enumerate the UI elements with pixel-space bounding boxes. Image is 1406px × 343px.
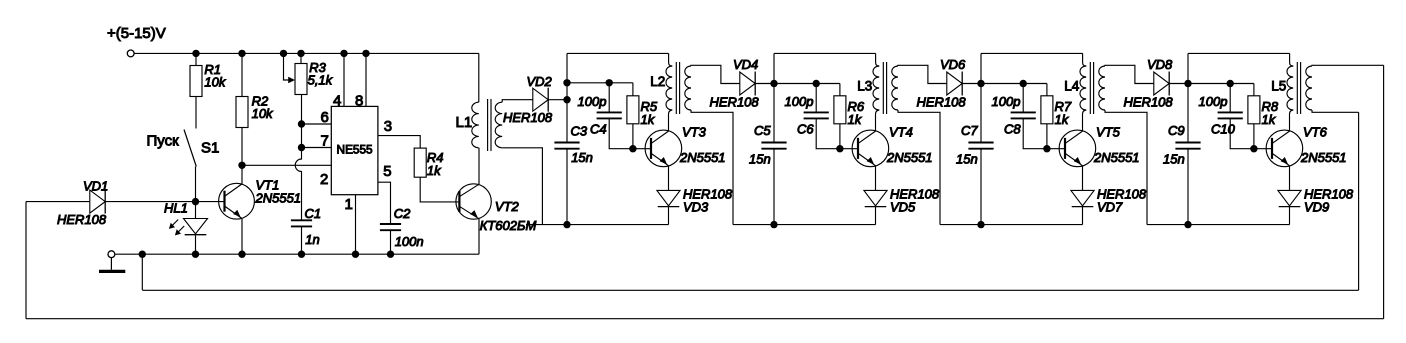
wire: VT1 emitter lead [241,219,243,255]
svg-text:VT5: VT5 [1096,125,1121,140]
wire: stage bottom rail [1147,224,1290,226]
svg-text:C1: C1 [305,206,322,221]
capacitor C2 [380,223,401,225]
transformer L5 core [1296,62,1298,114]
wire: C4 branch down [608,83,610,112]
wire: R1 top lead [195,53,197,65]
wire: pin7 down with hop over pin2 wire [295,148,301,221]
wire: VT1 collector lead [241,165,243,184]
svg-text:VD7: VD7 [1097,200,1123,215]
wire: C6 to base node [816,118,840,148]
wire: VT3 base wire [633,148,651,150]
svg-text:VT4: VT4 [889,125,913,140]
transformer L1 secondary winding [495,102,502,148]
svg-text:5,1k: 5,1k [308,73,334,88]
resistor R5 [627,96,639,124]
resistor R7 [1041,96,1053,124]
resistor R1 [190,66,202,97]
transformer L4 primary winding [1080,66,1086,110]
wire: stage left vertical lower [1187,149,1189,225]
node: R2/VT1 collector/555 pin2 [238,162,245,169]
svg-text:C3: C3 [571,124,588,139]
svg-text:КТ602БМ: КТ602БМ [480,218,537,233]
power input terminal [127,50,134,57]
wire: VD1 cathode to node [105,201,195,203]
svg-text:1: 1 [345,196,353,213]
wire: 555 pin 2 [242,164,331,166]
wire: secondary bottom lead to next stage rail [1105,110,1147,225]
ground bar [99,270,125,273]
diode VD6 [947,72,962,95]
wire: secondary top lead to next stage [898,65,947,83]
diode VD5 [864,190,887,205]
svg-text:4: 4 [333,93,341,110]
wire: HL1 anode lead [195,202,197,219]
svg-text:S1: S1 [201,140,219,157]
wire: +V top rail [134,52,479,54]
svg-text:HER108: HER108 [503,110,553,125]
transformer L5 primary winding [1287,66,1293,110]
svg-text:HER108: HER108 [917,95,967,110]
potentiometer R3 [295,64,307,95]
capacitor C7 [968,142,993,144]
transformer L4 core [1089,62,1091,114]
diode VD8 [1154,72,1169,95]
node: C6 tap [813,80,820,87]
wire: R1 to switch [195,97,197,129]
wire: pin6 to pin7 [301,124,303,148]
svg-text:VT3: VT3 [682,125,707,140]
svg-text:15n: 15n [749,152,771,167]
svg-text:2N5551: 2N5551 [886,150,933,165]
wire: switch to base node [195,167,197,202]
wire: stage top rail [774,52,876,54]
svg-text:2N5551: 2N5551 [1093,150,1140,165]
svg-text:100n: 100n [395,234,424,249]
wire: right inner vertical [1358,112,1360,290]
wire: C10 branch down [1229,84,1231,112]
wire: stage left vertical upper [1187,53,1189,142]
wire: secondary bottom lead to next stage rail [898,110,940,225]
wire: VD3 to stage rail [668,207,670,225]
node: VT6 base node [1250,145,1257,152]
wire: C6 branch down [815,84,817,112]
wire: L1 secondary top lead [502,100,533,103]
node: VT1 emitter on rail [238,251,245,258]
resistor R6 [834,96,846,124]
wire: primary top lead [876,53,880,66]
node: C8 tap [1020,80,1027,87]
wire: 555 pin 5 [378,182,391,224]
svg-text:VT2: VT2 [495,199,520,214]
node: VD6 output [977,80,984,87]
node: 555 pin8 rail [362,50,369,57]
resistor R4 [414,148,426,177]
wire: R6 top lead [839,84,841,96]
wire: VT4 emitter lead [875,166,877,191]
wire: stage left vertical lower [980,149,982,225]
svg-text:1k: 1k [1262,112,1277,127]
node: S1/VD1/HL1/VT1 base [192,198,199,205]
capacitor C10 [1218,111,1243,113]
wire: bottom outer return wire [26,318,1384,320]
wire: VT3 emitter lead [668,166,670,191]
svg-text:Пуск: Пуск [147,133,180,150]
transformer L3 core [882,62,884,114]
svg-text:VD5: VD5 [890,200,916,215]
node: stage1 82.8 rail tap [563,79,570,86]
wire: VT3 collector lead [669,110,673,131]
svg-text:L3: L3 [857,79,872,94]
wire: VT4 collector lead [876,110,880,131]
node: VD8 output [1184,80,1191,87]
node: VT4 base node [836,145,843,152]
svg-text:1k: 1k [848,112,863,127]
LED HL1 arrows [170,220,178,228]
svg-text:NE555: NE555 [337,143,374,157]
svg-text:100p: 100p [578,94,607,109]
node: C2 on ground rail [387,251,394,258]
wire: 555 pin 7 [302,147,332,149]
wire: L5 secondary bottom lead [1312,110,1359,112]
wire: VD6 cathode to node [962,83,981,85]
svg-text:C10: C10 [1211,122,1236,137]
svg-text:15n: 15n [571,150,593,165]
wire: stage1 left vertical upper [566,53,568,142]
wire: R6 bottom lead [839,124,841,149]
wire: VT1 base wire [196,201,225,203]
svg-text:L5: L5 [1271,79,1286,94]
capacitor C4 [597,111,622,113]
wire: rail down to L1 primary [478,53,480,102]
node: C4 tap [606,79,613,86]
transistor VT4 [852,130,889,167]
node: C7 on stage rail [977,221,984,228]
svg-text:HER108: HER108 [1124,95,1174,110]
wire: C4 to base node [609,118,633,148]
wire: R2 top lead [241,53,243,96]
capacitor C1 [291,219,312,221]
svg-text:VD2: VD2 [527,74,553,89]
wire: VT5 base wire [1047,148,1065,150]
capacitor C5 [761,142,786,144]
wire: stage bottom rail [733,224,876,226]
wire: VD5 to stage rail [875,207,877,225]
wire: secondary top lead to next stage [691,65,740,83]
node: R3 top [297,50,304,57]
wire: R7 top lead [1046,84,1048,96]
transformer L4 secondary winding [1099,66,1105,110]
transistor VT2 [456,184,491,219]
svg-text:2N5551: 2N5551 [255,191,302,206]
svg-text:15n: 15n [956,152,978,167]
node: C10 tap [1227,80,1234,87]
svg-text:C4: C4 [590,122,607,137]
svg-text:100p: 100p [1199,94,1228,109]
wire: 555 pin 1 [355,195,357,255]
node: C9 on stage rail [1184,221,1191,228]
svg-text:100p: 100p [992,94,1021,109]
wire: 555 pin 8 [365,53,367,106]
node: R2 top [238,50,245,57]
wire: right outer vertical [1383,65,1385,318]
wire: stage inner rail [1188,83,1254,85]
node: 555 pin4 rail [340,50,347,57]
svg-text:C6: C6 [797,122,814,137]
node: C1 on rail [298,251,305,258]
switch S1 blade [184,130,196,167]
svg-text:7: 7 [321,133,329,150]
arrowhead R3 wiper [288,77,295,83]
wire: VT2 emitter lead [478,219,480,255]
node: VD2 output [563,96,570,103]
wire: L5 secondary top lead to right edge [1312,64,1384,67]
transformer L2 core [675,62,677,114]
capacitor C3 [554,142,579,144]
wire: R5 bottom lead [632,124,634,149]
wire: C10 to base node [1230,118,1254,148]
transformer L2 secondary winding [685,66,691,110]
wire: stage left vertical lower [773,149,775,225]
wire: stage bottom rail [940,224,1083,226]
transformer L3 secondary winding [892,66,898,110]
svg-text:C2: C2 [394,206,411,221]
wire: stage inner rail [774,83,840,85]
wire: VD1 anode wire [26,201,90,203]
svg-text:2N5551: 2N5551 [679,150,726,165]
svg-text:6: 6 [321,109,329,126]
wire: ground rail to inner return [141,254,143,290]
wire: stage left vertical upper [980,53,982,142]
node: C3 on stage rail [563,221,570,228]
svg-text:1k: 1k [427,163,442,178]
wire: VD7 to stage rail [1082,207,1084,225]
svg-text:C9: C9 [1168,123,1185,138]
transformer L5 secondary winding [1306,66,1312,110]
wire: VT5 collector lead [1083,110,1087,131]
ground stub [110,258,112,270]
wire: R8 bottom lead [1253,124,1255,149]
svg-text:15n: 15n [1163,152,1185,167]
node: VT3 base node [629,145,636,152]
svg-text:8: 8 [355,93,363,110]
wire: HL1 cathode lead [195,236,197,255]
wire: primary top lead [1290,53,1294,66]
svg-text:HER108: HER108 [710,95,760,110]
wire: secondary top lead to next stage [1105,65,1154,83]
svg-text:10k: 10k [252,106,274,121]
node: 555 pin6 [298,120,305,127]
wire: R3 wiper feed [284,53,293,80]
wire: VT5 emitter lead [1082,166,1084,191]
diode VD2 [533,88,548,111]
svg-text:5: 5 [383,163,391,180]
svg-text:HER108: HER108 [57,212,107,227]
svg-text:VD4: VD4 [733,57,758,72]
svg-text:3: 3 [384,118,392,135]
svg-text:1k: 1k [641,112,656,127]
diode VD3 [657,190,680,205]
svg-text:VT6: VT6 [1303,125,1328,140]
wire: R7 bottom lead [1046,124,1048,149]
transistor VT3 [645,130,682,167]
svg-text:VD1: VD1 [83,179,108,194]
wire: secondary bottom lead to next stage rail [691,110,733,225]
wire: VD4 cathode to node [755,83,774,85]
wire: 555 pin 3 [378,136,420,149]
wire: left vertical to VD1 [25,202,27,319]
wire: R3 bottom lead [301,95,303,125]
svg-text:C8: C8 [1004,122,1021,137]
svg-text:C5: C5 [754,123,771,138]
diode VD9 [1278,190,1301,205]
wire: primary top lead [669,53,673,66]
wire: stage left vertical upper [773,53,775,142]
wire: stage top rail [981,52,1083,54]
transistor VT5 [1059,130,1096,167]
svg-text:10k: 10k [204,75,226,90]
wire: R5 top lead [632,83,634,96]
capacitor C8 [1011,111,1036,113]
svg-text:2: 2 [320,171,328,188]
ground terminal [108,251,115,258]
transformer L3 primary winding [873,66,879,110]
wire: stage bottom rail [526,224,669,226]
svg-text:L1: L1 [456,114,473,131]
resistor R8 [1248,96,1260,124]
node: C5 on stage rail [770,221,777,228]
svg-text:VD8: VD8 [1147,57,1173,72]
node: VD4 output [770,80,777,87]
diode VD4 [740,72,755,95]
svg-text:2N5551: 2N5551 [1300,150,1347,165]
transformer L1 primary winding [472,102,479,148]
wire: R8 top lead [1253,84,1255,96]
transformer L1 core [487,99,489,151]
transistor VT6 [1266,130,1303,167]
svg-text:100p: 100p [785,94,814,109]
node: return wire tap [139,251,146,258]
wire: VT6 emitter lead [1289,166,1291,191]
wire: stage top rail [567,52,669,54]
wire: R3 top lead [300,53,302,63]
capacitor C6 [804,111,829,113]
wire: ground rail [115,253,479,255]
node: pin1 on ground rail [352,251,359,258]
wire: stage1 inner rail [567,82,633,84]
op-amp timer U1 NE555 box [331,106,378,194]
wire: VT6 base wire [1254,148,1272,150]
wire: primary top lead [1083,53,1087,66]
svg-text:C7: C7 [961,123,978,138]
node: 555 pin7 [298,144,305,151]
wire: VD2 cathode to node [548,99,567,101]
node: VT5 base node [1043,145,1050,152]
wire: C2 bottom lead [390,230,392,254]
wire: C8 branch down [1022,84,1024,112]
wire: bottom inner return wire [142,289,1358,291]
wire: stage inner rail [981,83,1047,85]
wire: R2 bottom lead [241,128,243,166]
wire: C8 to base node [1023,118,1047,148]
LED HL1 [184,219,208,234]
svg-text:L4: L4 [1064,79,1080,94]
wire: R4 to VT2 base [420,177,459,202]
diode VD7 [1071,190,1094,205]
wire: L1 secondary bottom lead [502,148,542,225]
node: R1 top [192,50,199,57]
wire: VT4 base wire [840,148,858,150]
svg-text:VD9: VD9 [1304,200,1329,215]
wire: VT6 collector lead [1290,110,1294,131]
svg-text:1k: 1k [1055,112,1070,127]
svg-text:+(5-15)V: +(5-15)V [107,25,166,42]
wire: stage1 left vertical lower [566,149,568,225]
wire: VD9 to stage rail [1289,207,1291,225]
svg-text:HL1: HL1 [164,201,188,216]
diode VD1 [90,190,105,213]
wire: VD8 cathode to node [1169,83,1188,85]
wire: 555 pin 6 [302,123,332,125]
svg-text:1n: 1n [305,232,319,247]
wire: stage top rail [1188,52,1290,54]
wire: VT2 collector lead [478,148,480,185]
capacitor C9 [1175,142,1200,144]
transistor VT1 [219,183,255,219]
svg-text:VD6: VD6 [940,57,966,72]
svg-text:L2: L2 [650,74,665,89]
wire: 555 pin 4 [343,53,345,106]
node: HL1 on ground rail [192,251,199,258]
node: R3 wiper feed [280,50,287,57]
resistor R2 [236,97,248,128]
transformer L2 primary winding [666,66,672,110]
wire: C1 bottom lead [301,226,303,254]
svg-text:VD3: VD3 [683,200,709,215]
